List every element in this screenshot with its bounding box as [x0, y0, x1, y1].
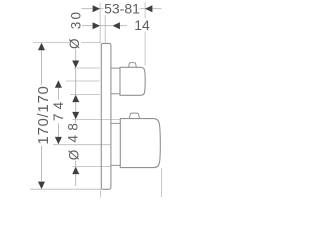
- svg-text:Ø: Ø: [66, 149, 81, 160]
- lower handle body: [120, 119, 160, 168]
- arrow 14 right: [112, 22, 120, 29]
- arrow O48 bottom: [72, 167, 79, 175]
- arrow O30 top: [72, 61, 79, 69]
- wire: plate bottom extension line: [30, 188, 101, 190]
- wire: lower knob bottom extension: [73, 166, 111, 168]
- dimension O30 line: [75, 49, 77, 112]
- dimension 74 line: [57, 88, 59, 137]
- wire: upper knob top extension line: [74, 67, 100, 69]
- upper handle body: [120, 67, 145, 95]
- wire: upper knob centerline extension: [66, 80, 100, 82]
- arrow 53-81 right: [145, 5, 153, 12]
- wire: plate top extension line: [33, 42, 101, 44]
- svg-text:4: 4: [51, 101, 66, 109]
- lower handle button: [129, 113, 139, 119]
- svg-text:7: 7: [51, 114, 66, 122]
- arrow O48 top: [72, 112, 79, 120]
- label 14: [134, 19, 150, 32]
- lower handle stem: [111, 123, 120, 165]
- svg-text:4: 4: [66, 134, 81, 142]
- wire: lower knob centerline extension: [53, 144, 110, 146]
- arrow 170/170 bottom: [38, 182, 45, 190]
- wire: wall reference extension line: [99, 3, 101, 198]
- label O of 30: [70, 38, 81, 49]
- dimension 170/170 line: [41, 50, 43, 181]
- wire: upper knob bottom extension line: [70, 93, 100, 95]
- wire: front of upper handle extension line: [144, 2, 146, 66]
- svg-text:30: 30: [69, 10, 84, 29]
- svg-text:53-81: 53-81: [104, 1, 140, 17]
- wire: lower knob top extension: [73, 118, 121, 120]
- svg-text:8: 8: [66, 123, 81, 131]
- escutcheon plate (side view): [101, 43, 111, 189]
- arrow 74 bottom: [55, 137, 62, 145]
- dimension 53-81 line: [82, 8, 162, 10]
- arrow O30 bottom: [72, 95, 79, 103]
- dimension O48 line: [75, 119, 77, 186]
- dimension 14 line: [82, 25, 127, 27]
- svg-text:170/170: 170/170: [35, 85, 52, 144]
- upper handle stem: [111, 68, 120, 94]
- arrow 74 top: [55, 80, 62, 88]
- svg-text:Ø: Ø: [67, 38, 82, 49]
- svg-text:14: 14: [134, 17, 150, 33]
- arrow 53-81 left: [93, 5, 101, 12]
- wire: line below lower knob front: [160, 168, 162, 197]
- arrow 170/170 top: [38, 43, 45, 50]
- arrow 14 left: [93, 22, 101, 29]
- upper handle button: [129, 63, 137, 68]
- wire: plate left edge extended up: [104, 15, 106, 44]
